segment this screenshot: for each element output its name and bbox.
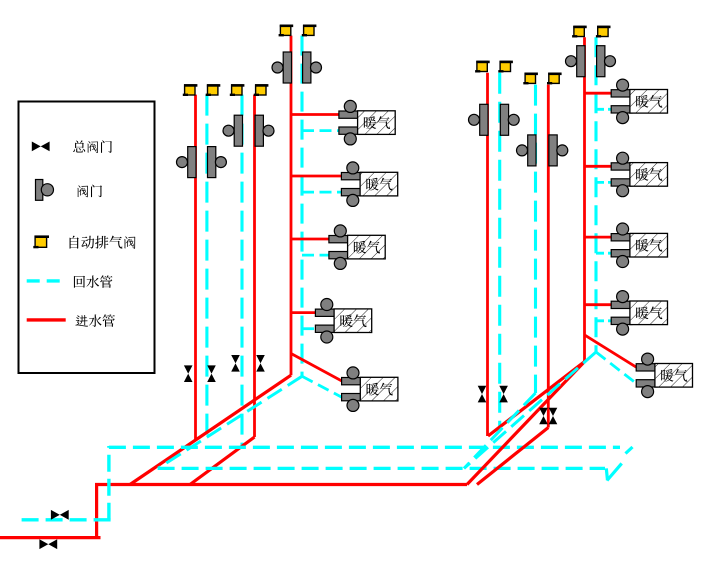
shut-off valve on riser P3 [231, 355, 240, 372]
radiator R2 [611, 152, 667, 197]
legend symbol: supply pipe [27, 318, 66, 321]
wire: branch supply to radiator R4 (red) [585, 303, 612, 306]
wire: center supply diagonal to main (red) [130, 375, 291, 484]
legend box [19, 102, 155, 374]
valve on riser P8 [549, 135, 568, 166]
air vent square on center return riser [302, 25, 317, 35]
shut-off valve on riser P5 [478, 386, 487, 403]
air vent square on center supply riser [279, 25, 294, 35]
wire: left riser P1 supply (red) [194, 95, 197, 441]
shut-off valve on riser P6 [499, 386, 508, 403]
wire: supply main drop at left (red) [95, 483, 98, 538]
legend label: supply pipe [75, 315, 88, 327]
legend label: main valve [73, 140, 85, 152]
wire: return main B horizontal (cyan) [158, 467, 605, 470]
wire: diagonal return from radiator C5 (cyan) [302, 376, 342, 397]
wire: branch return from radiator R4 (cyan) [596, 319, 611, 322]
wire: branch supply to radiator C4 (red) [291, 311, 316, 314]
wire: branch supply to radiator C2 (red) [291, 175, 342, 178]
wire: branch return from radiator R1 (cyan) [596, 108, 611, 111]
radiator C2 [341, 162, 397, 207]
wire: return diagonal C2 risers P6 P7 to main B (cyan) [464, 393, 536, 468]
legend label: valve [77, 185, 88, 197]
main shut-off valve on supply inlet [39, 539, 57, 549]
wire: far-right return riser (cyan, x=596) [594, 37, 597, 352]
shut-off valve on riser P4 [256, 355, 265, 372]
wire: diagonal supply to radiator C5 (red) [291, 354, 342, 382]
wire: branch supply to radiator C3 (red) [291, 238, 329, 241]
radiator C1 [339, 100, 395, 144]
wire: diagonal return from radiator R5 (cyan) [596, 352, 636, 383]
valve on far-right supply riser [566, 46, 586, 77]
wire: branch return from radiator C2 (cyan) [302, 191, 342, 194]
legend symbol: return pipe [27, 279, 66, 282]
shut-off valve on riser P1 [184, 365, 193, 382]
valve on far-right return riser [597, 46, 616, 77]
wire: riser P4 bottom diagonal to supply main (red) [190, 437, 255, 485]
air vent square on riser P8 [547, 73, 562, 83]
wire: center return diagonal to return main B (cyan) [158, 376, 302, 468]
air vent square on riser P2 [206, 85, 221, 95]
wire: right riser P8 supply (red) [547, 85, 550, 428]
legend symbol: main shut-off valve [32, 142, 50, 152]
wire: far-right return diagonal to main B (cyan) [464, 352, 596, 468]
legend symbol: automatic air vent [33, 236, 49, 247]
shut-off valve on riser P8 [549, 408, 558, 425]
wire: far-right supply diagonal to riser P5 (red) [488, 362, 585, 436]
wire: return main B end jog up (cyan) [607, 463, 622, 480]
wire: branch return from radiator R2 (cyan) [596, 181, 611, 184]
valve on riser P4 [255, 115, 274, 146]
wire: center supply riser (red, x=291) [290, 36, 293, 376]
valve on center return riser [303, 52, 322, 83]
wire: center return riser (cyan, x=302) [300, 36, 303, 377]
air vent square on riser P3 [230, 85, 245, 95]
wire: return main riser at left (cyan) [107, 446, 110, 520]
valve on riser P3 [223, 115, 243, 146]
wire: left riser P3 return (cyan) [240, 95, 243, 448]
radiator R5 [636, 353, 692, 398]
wire: right riser P6 return (cyan) [498, 73, 501, 429]
air vent square on riser P7 [523, 73, 538, 83]
wire: right riser P5 supply (red) [486, 73, 489, 436]
shut-off valve on riser P7 [539, 408, 548, 425]
wire: return main A end hook (cyan) [626, 447, 633, 454]
legend symbol: valve [36, 180, 54, 201]
wire: branch return from radiator R3 (cyan) [596, 252, 611, 255]
air vent square on riser P1 [183, 85, 198, 95]
wire: branch supply to radiator R2 (red) [585, 165, 612, 168]
wire: branch return from radiator C3 (cyan) [302, 254, 329, 257]
wire: right riser P7 return (cyan) [534, 85, 537, 393]
air vent square on riser P5 [475, 62, 490, 72]
wire: left riser P4 supply (red) [253, 95, 256, 437]
wire: branch supply to radiator R3 (red) [585, 236, 612, 239]
wire: branch supply to radiator C1 (red) [291, 113, 340, 116]
valve on center supply riser [272, 52, 292, 83]
wire: supply main diagonal up to far-right riser (red) [467, 362, 585, 485]
wire: riser P8 bottom diagonal to supply main (red) [477, 428, 548, 485]
valve on riser P6 [500, 104, 519, 135]
wire: left riser P2 return (cyan) [205, 95, 208, 438]
wire: far-right supply riser (red, x=584.5) [583, 37, 586, 361]
main shut-off valve on return outlet [51, 510, 69, 520]
legend label: return pipe [74, 276, 85, 288]
valve on riser P1 [177, 147, 197, 178]
valve on riser P7 [517, 135, 537, 166]
air vent square on riser P4 [254, 85, 269, 95]
wire: return main A horizontal (cyan) [109, 446, 620, 449]
air vent square on riser P6 [498, 62, 513, 72]
wire: supply inlet bottom horizontal (red) [0, 536, 101, 539]
valve on riser P5 [469, 104, 489, 135]
wire: branch return from radiator C1 (cyan) [302, 129, 339, 132]
wire: return main B end jog down (cyan) [606, 468, 607, 480]
air vent square on far-right return riser [596, 27, 611, 37]
radiator C3 [329, 225, 385, 270]
wire: return outlet horizontal (cyan) [22, 518, 114, 521]
radiator R1 [611, 79, 667, 124]
radiator C5 [342, 367, 398, 412]
wire: diagonal supply to radiator R5 (red) [585, 335, 637, 367]
air vent square on far-right supply riser [572, 27, 587, 37]
legend label: automatic air vent [70, 236, 79, 249]
wire: supply main horizontal (red) [95, 483, 467, 486]
radiator R3 [611, 223, 667, 268]
radiator C4 [315, 299, 371, 344]
wire: branch return from radiator C4 (cyan) [302, 327, 316, 330]
wire: branch supply to radiator R1 (red) [585, 92, 612, 95]
shut-off valve on riser P2 [207, 365, 216, 382]
valve on riser P2 [208, 147, 227, 178]
radiator R4 [611, 291, 667, 336]
